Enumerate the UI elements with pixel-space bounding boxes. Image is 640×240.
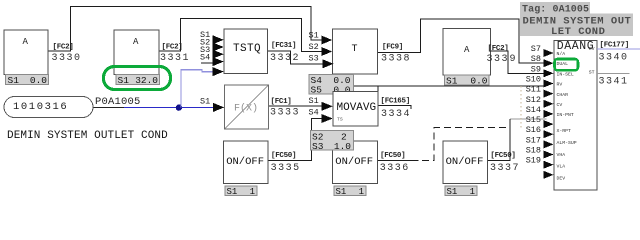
svg-text:S9: S9 — [531, 64, 541, 74]
MOVAVG constants box S2/S3 — [311, 131, 354, 151]
T input arrow S2 — [321, 47, 332, 56]
block ON/OFF 3336 — [333, 141, 378, 184]
DAANG input arrow row 5 — [544, 90, 554, 98]
svg-text:S4: S4 — [200, 53, 210, 63]
svg-text:3333: 3333 — [270, 108, 300, 119]
block A3 (analog input) — [443, 29, 491, 76]
svg-text:333: 333 — [487, 54, 510, 65]
svg-text:[FC165]: [FC165] — [381, 98, 410, 106]
svg-text:S1: S1 — [118, 75, 130, 86]
block MOVAVG moving average — [333, 92, 378, 127]
svg-text:S15: S15 — [526, 115, 541, 125]
svg-text:[FC1]: [FC1] — [271, 98, 292, 106]
svg-text:N/A: N/A — [557, 51, 566, 57]
svg-text:IN-SEL: IN-SEL — [557, 72, 574, 78]
svg-text:S8: S8 — [531, 54, 541, 64]
svg-text:9: 9 — [510, 54, 516, 65]
svg-text:VLA: VLA — [557, 164, 566, 170]
svg-text:0.0: 0.0 — [30, 75, 47, 86]
svg-text:ST: ST — [589, 70, 595, 76]
svg-text:[FC50]: [FC50] — [380, 152, 405, 160]
green highlight ring around A2 value — [104, 67, 171, 90]
TSTQ input arrow (violet fed) — [213, 67, 224, 76]
svg-text:[FC2]: [FC2] — [488, 45, 509, 53]
svg-text:ALM-SUP: ALM-SUP — [557, 140, 577, 146]
DAANG input arrow row 2 — [544, 59, 554, 67]
svg-text:S1: S1 — [309, 31, 319, 41]
DAANG input arrow row 3 — [544, 69, 554, 77]
wire: A1 output 3330 via top rail to T input S1 — [47, 7, 324, 52]
wire: TSTQ output 3332 to T input S3 — [268, 51, 323, 64]
svg-text:Tag: 0A1005: Tag: 0A1005 — [522, 5, 589, 16]
MOVAVG input arrow S4 — [322, 114, 333, 123]
block ON/OFF 3337 — [443, 141, 488, 184]
svg-text:S17: S17 — [526, 135, 541, 145]
block TSTQ — [224, 29, 268, 73]
svg-text:TS: TS — [337, 117, 343, 123]
value strip A3: S1 0.0 — [445, 75, 490, 85]
F(X) diagonal — [225, 86, 268, 129]
svg-text:S1: S1 — [227, 187, 238, 197]
svg-text:S1: S1 — [8, 75, 20, 86]
DAANG input arrow row 13 — [544, 171, 554, 179]
DAANG input arrow row 8 — [544, 120, 554, 128]
value strip 3335: S1 1 — [225, 186, 257, 196]
wire: T constants box to DAANG input S11 — [354, 85, 547, 87]
block A1 (analog input) — [4, 30, 48, 75]
T input arrow S1 — [321, 36, 332, 45]
wire: A3 output 3339 down to DAANG input S9 — [491, 51, 545, 73]
wire: DAANG ST output (gray) — [597, 72, 630, 74]
svg-text:IN-PNT: IN-PNT — [557, 112, 574, 118]
svg-text:X-RPT: X-RPT — [557, 128, 572, 134]
svg-text:0.0: 0.0 — [470, 76, 487, 87]
junction dot on P0A1005 line — [176, 104, 182, 110]
svg-text:DEMIN SYSTEM OUTLET COND: DEMIN SYSTEM OUTLET COND — [7, 130, 168, 142]
svg-text:3338: 3338 — [381, 54, 411, 65]
svg-text:S18: S18 — [526, 146, 541, 156]
wire: ON/OFF FC3335 output up to MOVAVG input S4 — [268, 119, 324, 161]
svg-text:3332: 3332 — [270, 53, 300, 64]
svg-text:CV: CV — [557, 102, 563, 108]
DAANG input arrow row 11 — [544, 151, 554, 159]
svg-text:P0A1005: P0A1005 — [95, 96, 141, 108]
svg-text:S11: S11 — [526, 85, 541, 95]
svg-text:A: A — [133, 37, 139, 47]
svg-text:VHA: VHA — [557, 152, 566, 158]
wire: gray feed into DAANG input S15 — [510, 118, 547, 120]
svg-text:3341: 3341 — [599, 77, 629, 88]
svg-text:[FC50]: [FC50] — [490, 152, 515, 160]
svg-text:S12: S12 — [526, 95, 541, 105]
svg-text:DUAL: DUAL — [557, 61, 569, 67]
svg-text:S10: S10 — [526, 75, 541, 85]
svg-text:ON/OFF: ON/OFF — [446, 156, 484, 168]
svg-text:S4: S4 — [309, 108, 319, 118]
svg-text:1: 1 — [359, 187, 364, 197]
svg-text:ON/OFF: ON/OFF — [226, 156, 264, 168]
wire: P0A1005 tag line (black segment) — [93, 107, 124, 109]
wire: dashed link from 3336 output to DAANG input S15 — [422, 128, 510, 161]
svg-text:DEV: DEV — [557, 176, 566, 182]
DAANG input arrow row 12 — [544, 161, 554, 169]
svg-text:LET COND: LET COND — [551, 26, 605, 38]
wire: F(X) output 3333 to MOVAVG input S1 — [269, 105, 324, 107]
svg-text:A: A — [23, 37, 29, 47]
value strip A1: S1 0.0 — [6, 75, 49, 85]
green highlight box around DUAL — [555, 59, 579, 70]
svg-text:3337: 3337 — [490, 163, 520, 174]
wire: dotted drop from S11 feed wire — [520, 86, 522, 128]
wire: MOVAVG output 3334 stub — [378, 106, 411, 110]
svg-text:1: 1 — [250, 187, 255, 197]
svg-text:F(X): F(X) — [234, 103, 258, 115]
svg-text:3336: 3336 — [380, 163, 410, 174]
MOVAVG input arrow S1 — [322, 102, 333, 111]
DAANG input arrow row 7 — [544, 110, 554, 118]
svg-text:[FC2]: [FC2] — [162, 44, 183, 52]
svg-text:CHAR: CHAR — [557, 92, 569, 98]
value strip 3336: S1 1 — [334, 186, 366, 196]
svg-text:S16: S16 — [526, 125, 541, 135]
svg-text:3330: 3330 — [52, 53, 82, 64]
svg-text:MOVAVG: MOVAVG — [337, 102, 377, 114]
svg-text:S1: S1 — [200, 97, 210, 107]
wire: P0A1005 line (blue segment) to F(X) input S1 — [124, 107, 213, 109]
block ON/OFF 3335 — [224, 141, 269, 184]
block DAANG alarm annunciator — [554, 41, 597, 191]
svg-text:S14: S14 — [526, 105, 541, 115]
svg-text:1: 1 — [470, 187, 475, 197]
svg-text:T: T — [352, 44, 358, 55]
svg-text:RV: RV — [557, 82, 563, 88]
T constants box S4/S5 — [309, 74, 354, 94]
wire: dashed riser to S15 feed — [509, 119, 511, 128]
svg-text:[FC2]: [FC2] — [53, 44, 74, 52]
DAANG input arrow row 6 — [544, 100, 554, 108]
wire: violet branch up to TSTQ input S4 — [181, 70, 214, 108]
T input arrow S3 — [323, 59, 334, 68]
svg-text:3335: 3335 — [271, 163, 301, 174]
value strip 3337: S1 1 — [445, 186, 477, 196]
block T (selector) — [333, 29, 378, 74]
DAANG input arrow row 4 — [544, 80, 554, 88]
tag header background — [520, 2, 590, 14]
wire: DAANG RV output (violet) — [597, 48, 640, 50]
svg-text:3331: 3331 — [160, 53, 190, 64]
svg-text:3340: 3340 — [599, 53, 629, 64]
TSTQ input arrow S3 — [213, 50, 224, 59]
svg-text:A: A — [464, 45, 470, 55]
svg-text:S1: S1 — [446, 76, 458, 87]
TSTQ input arrow S1 — [213, 35, 224, 44]
wire: T output 3338 via rail to DAANG input S8 — [377, 19, 545, 63]
svg-text:1.0: 1.0 — [334, 141, 351, 152]
svg-text:[FC50]: [FC50] — [271, 152, 296, 160]
DAANG input arrow row 1 — [544, 49, 554, 57]
TSTQ input arrow S2 — [213, 43, 224, 52]
svg-text:3334: 3334 — [381, 109, 411, 120]
svg-text:RV: RV — [589, 46, 595, 52]
DAANG input arrow row 9 — [544, 130, 554, 138]
svg-text:1010316: 1010316 — [13, 101, 68, 113]
svg-text:32.0: 32.0 — [135, 75, 158, 86]
DAANG input arrow row 10 — [544, 140, 554, 148]
wire: stub down from T-constant wire junction — [377, 86, 379, 92]
svg-text:[FC9]: [FC9] — [382, 44, 403, 52]
wire: A2 output 3331 via second rail to T input S2 — [159, 19, 323, 52]
wire: ON/OFF FC3337 output rising to S15 node — [488, 119, 510, 161]
svg-text:S7: S7 — [531, 44, 541, 54]
TSTQ input arrow S4 with lead — [201, 62, 213, 64]
svg-text:S2: S2 — [309, 42, 319, 52]
svg-text:[FC31]: [FC31] — [271, 42, 296, 50]
svg-text:ON/OFF: ON/OFF — [335, 156, 373, 168]
tag stadium 1010316 — [4, 97, 93, 118]
svg-text:S19: S19 — [526, 156, 541, 166]
svg-text:S1: S1 — [336, 187, 347, 197]
wire: ON/OFF FC3336 output line — [377, 160, 418, 162]
svg-text:S1: S1 — [447, 187, 458, 197]
block F(X) function generator — [225, 85, 269, 129]
block A2 (analog input) — [114, 30, 159, 75]
svg-text:S5: S5 — [311, 84, 323, 95]
svg-text:S1: S1 — [309, 96, 319, 106]
F(X) input arrow S1 — [213, 103, 224, 112]
svg-text:TSTQ: TSTQ — [233, 43, 261, 55]
value strip A2: S1 32.0 — [116, 75, 160, 85]
svg-text:S3: S3 — [309, 54, 319, 64]
svg-text:S3: S3 — [312, 141, 324, 152]
